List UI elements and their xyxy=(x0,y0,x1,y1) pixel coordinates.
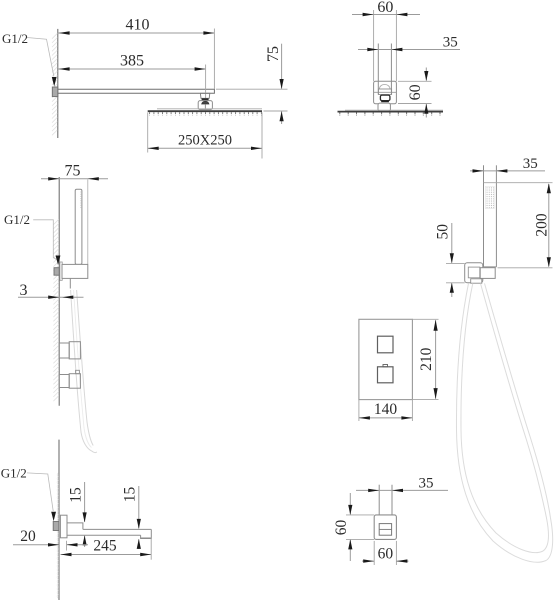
drawing 3: mixer box side view upper xyxy=(59,343,69,358)
drawing 3: G1/2 wall fitting (grey) xyxy=(54,268,59,276)
drawing 5: G1/2 wall fitting (grey) xyxy=(53,522,59,531)
drawing 2: escutcheon mid line xyxy=(374,91,397,93)
dimension 75 (drawing 3): arrows xyxy=(48,177,59,180)
drawing 3: wall line xyxy=(58,177,60,406)
mixer box: outer rectangle xyxy=(359,319,413,399)
drawing 3: leader line G1/2 xyxy=(33,220,56,260)
drawing 1: shower arm xyxy=(58,89,215,93)
svg-text:385: 385 xyxy=(120,53,144,70)
drawing 1: shower head plate xyxy=(148,110,262,112)
drawing 3: holder wall plate xyxy=(60,262,62,280)
svg-text:210: 210 xyxy=(418,347,435,371)
dimension 35 (drawing 4): line xyxy=(470,170,545,172)
dimension 60 top: arrows xyxy=(363,13,374,16)
drawing 3: leader arrow xyxy=(56,256,61,266)
svg-text:35: 35 xyxy=(443,34,458,50)
drawing 3: wall hatching xyxy=(53,219,58,401)
drawing 3: mixer box side view lower xyxy=(59,375,69,388)
dimension 75 (drawing 1): line and arrows xyxy=(281,44,283,89)
dimension 75 (drawing 1): extension lines xyxy=(216,88,288,90)
mixer box: upper square (diverter) xyxy=(378,336,394,353)
dimension 75 (drawing 3): extension line xyxy=(87,180,89,265)
drawing 3: hose stub xyxy=(69,278,71,288)
drawing 5: spout tube top xyxy=(83,528,151,530)
dimension 50: extension lines xyxy=(446,263,465,265)
svg-text:245: 245 xyxy=(93,538,117,555)
drawing 1: wall line (side view, rain shower) xyxy=(57,29,59,138)
dimension 35 top: arrows xyxy=(367,48,378,51)
drawing 5: leader line G1/2 xyxy=(27,473,53,511)
dimension 75 (drawing 3): line xyxy=(41,178,108,180)
dimension 20: extension line xyxy=(66,541,68,551)
drawing 5: spout tube bottom xyxy=(67,534,141,536)
drawing 1: swivel dark band xyxy=(202,98,209,100)
dimension 60 bottom: extension lines xyxy=(373,541,375,565)
drawing 3: hose (light curves) xyxy=(71,290,97,453)
dimension 15 second: line and arrows xyxy=(138,486,140,528)
dimension 410: line xyxy=(58,32,215,34)
drawing 1: plate nozzle dots xyxy=(150,114,262,117)
svg-text:G1/2: G1/2 xyxy=(2,31,28,46)
svg-text:75: 75 xyxy=(265,46,282,62)
svg-text:60: 60 xyxy=(333,520,350,536)
drawing 2: ball joint xyxy=(380,95,390,101)
svg-text:200: 200 xyxy=(533,213,550,237)
drawing 4: holder bracket outer xyxy=(465,263,483,283)
dimension 35 (drawing 6): line xyxy=(356,489,448,491)
drawing 3: hand shower handle (side) xyxy=(75,189,82,264)
drawing 5: spout tip block xyxy=(141,529,152,538)
dimension 60 left: line and arrows xyxy=(349,493,351,514)
svg-text:G1/2: G1/2 xyxy=(1,465,27,480)
dimension 200: extension lines xyxy=(484,182,553,184)
drawing 4: hand shower handle (front) xyxy=(483,165,485,267)
dimension 410: arrows xyxy=(59,31,70,34)
svg-text:G1/2: G1/2 xyxy=(4,212,30,227)
drawing 4: hose inner edge xyxy=(461,283,549,552)
dimension 60 bottom: line and arrows xyxy=(362,560,374,562)
mixer box: lower square (valve) xyxy=(378,367,394,383)
dimension 210: extension lines xyxy=(412,318,438,320)
drawing 6: spout pipe (front) xyxy=(378,485,380,515)
svg-text:35: 35 xyxy=(523,156,538,172)
dimension 35 (drawing 4): arrows xyxy=(473,169,484,172)
drawing 4: handle inlet elbow xyxy=(480,268,495,279)
drawing 5: leader arrow xyxy=(51,512,56,522)
drawing 2: swivel dome xyxy=(379,84,390,89)
drawing 6: outlet mid line xyxy=(379,528,391,530)
drawing 1: G1/2 wall fitting (grey) xyxy=(52,87,58,97)
drawing 2: extension lines for width 60 xyxy=(373,10,375,81)
dimension 250X250: line xyxy=(148,147,262,149)
dimension 3: arrows xyxy=(48,296,59,299)
dimension 210: line and arrows xyxy=(435,320,437,399)
drawing 2: dark collar xyxy=(381,101,389,103)
svg-text:20: 20 xyxy=(20,528,36,545)
dimension 15 first: line and arrows xyxy=(84,482,86,522)
drawing 2: swivel nut xyxy=(378,89,391,95)
svg-text:410: 410 xyxy=(126,17,150,34)
drawing 1: head swivel nut xyxy=(200,93,209,98)
drawing 5: spout flange xyxy=(60,515,67,538)
drawing 2: head plate top edge xyxy=(345,109,443,111)
svg-text:60: 60 xyxy=(407,84,424,100)
dimension 35 top: line xyxy=(358,49,460,51)
dimension 385: arrows xyxy=(59,67,70,70)
dimension 60 right: line and arrows xyxy=(425,68,427,81)
dimension 245: arrows xyxy=(61,553,72,556)
drawing 5: wall line xyxy=(58,440,60,600)
dimension 35 (drawing 6): arrows xyxy=(368,489,379,492)
dimension 50: line and arrows xyxy=(451,223,453,263)
drawing 4: holder inner square xyxy=(468,267,480,278)
dimension 20: line and arrows xyxy=(13,544,59,546)
svg-text:75: 75 xyxy=(65,163,81,180)
drawing 4: hose nut under holder xyxy=(471,279,482,283)
svg-text:50: 50 xyxy=(435,224,452,240)
drawing 2: head plate xyxy=(338,111,444,113)
drawing 1: leader line G1/2 xyxy=(27,38,54,77)
drawing 1: shower head plate top edge xyxy=(157,108,262,110)
drawing 3: holder bracket xyxy=(62,264,88,278)
dimension 60 right: extension lines xyxy=(398,80,432,82)
dimension 140: line xyxy=(359,417,413,419)
drawing 6: spout outlet xyxy=(379,524,391,536)
drawing 1: swivel stem xyxy=(204,104,206,109)
drawing 5: wall hatching (faint scallop) xyxy=(57,473,58,598)
drawing 2: plate nozzle dots xyxy=(340,114,440,117)
svg-text:15: 15 xyxy=(122,487,139,503)
svg-text:140: 140 xyxy=(374,401,398,418)
drawing 1: head mount base xyxy=(198,101,212,110)
drawing 6: spout escutcheon xyxy=(374,515,396,540)
drawing 2: ceiling escutcheon xyxy=(374,81,397,104)
drawing 1: leader arrow xyxy=(52,77,57,87)
svg-text:15: 15 xyxy=(68,487,85,503)
mixer box: valve tab xyxy=(383,365,388,367)
svg-text:60: 60 xyxy=(377,0,393,16)
drawing 1: plate nozzle ticks xyxy=(150,112,262,114)
dimension 385: extension line through fitting xyxy=(205,65,207,106)
drawing 3: spray strip xyxy=(80,192,82,210)
drawing 4: spray face dotted grid xyxy=(485,186,494,208)
drawing 2: supply pipe xyxy=(377,44,379,95)
svg-text:3: 3 xyxy=(20,282,28,299)
dimension 200: line and arrows xyxy=(548,184,550,267)
svg-text:35: 35 xyxy=(419,476,434,492)
dimension 410: extension line xyxy=(213,29,215,90)
svg-text:250X250: 250X250 xyxy=(178,132,232,148)
drawing 2: mount base xyxy=(378,103,390,111)
svg-text:60: 60 xyxy=(378,546,394,563)
dimension 60 left: extension lines xyxy=(346,514,374,516)
dimension 385: line xyxy=(58,68,206,70)
dimension 250X250: extension lines xyxy=(147,113,149,153)
dimension 245: extension line xyxy=(150,537,152,559)
dimension 140: extension lines xyxy=(358,400,360,421)
drawing 2: plate nozzle ticks xyxy=(340,113,440,115)
drawing 3: mixer lower tab xyxy=(76,370,80,373)
drawing 1: wall hatching xyxy=(52,33,57,135)
drawing 5: spout root segment xyxy=(67,523,83,530)
drawing 4: hose outer edge xyxy=(456,283,552,562)
dimension 245: line xyxy=(61,554,152,556)
dimension 250X250: arrows xyxy=(148,147,159,150)
dimension 3: line xyxy=(18,296,84,298)
drawing 1: swivel ball xyxy=(202,101,209,104)
dimension 140: arrows xyxy=(359,416,370,419)
dimension 60 top: line xyxy=(352,14,420,16)
